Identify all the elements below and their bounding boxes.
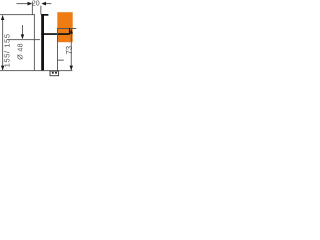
svg-text:73: 73 [65, 45, 74, 54]
svg-text:20: 20 [32, 1, 40, 8]
svg-text:155/ 155: 155/ 155 [2, 33, 11, 67]
svg-text:Ø 48: Ø 48 [17, 43, 25, 60]
